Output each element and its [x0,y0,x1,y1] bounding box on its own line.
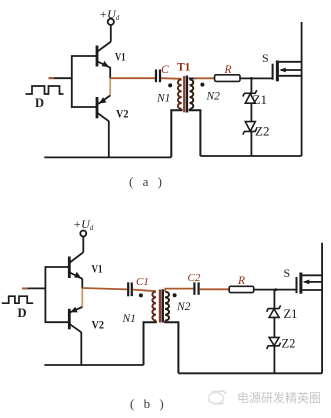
resistor R box [215,75,240,82]
MOSFET S (b) channel bar [299,273,302,294]
MOSFET S (a) channel bar [276,61,279,82]
junction node gate/zener (b) [274,288,277,291]
svg-text:S: S [262,51,269,65]
transformer core (b) [159,290,161,323]
svg-text:N2: N2 [206,91,221,103]
output emitter vertical wire [109,67,111,78]
primary bottom elbow wire (b) [144,321,156,365]
zener Z1 (b) [267,305,281,317]
wire Z2 to rail [250,131,252,156]
svg-text:R: R [224,64,232,76]
wire supply to V1 collector (b) [82,237,84,253]
wire secondary to R [190,78,196,79]
input wire (b) [22,287,45,289]
polarity dot primary [168,83,172,87]
capacitor C2 plates [194,282,198,294]
svg-text:( b ): ( b ) [130,396,167,411]
transistor V2 (b) [69,307,82,332]
MOSFET S (a) source stub [279,75,302,77]
transistor V1 (b) [69,252,83,278]
svg-text:N1: N1 [156,93,170,105]
base coupling rectangle wires (b) [45,267,69,322]
zener Z2 (b) [267,337,281,349]
wire node down to Z1 [250,78,252,93]
input wire [49,77,72,79]
svg-text:电源研发精英圈: 电源研发精英圈 [237,390,321,405]
wire C1 to transformer primary (b) [133,290,156,292]
drain/source rail (a) [301,22,303,156]
transformer secondary winding N2 [190,79,194,109]
svg-text:Z2: Z2 [282,337,296,351]
wire Z1 to Z2 [250,103,252,121]
supply terminal circle [108,19,114,25]
junction node gate/zener [250,77,253,80]
watermark logo [208,391,226,404]
wire output to capacitor C [110,77,155,79]
svg-text:Z1: Z1 [284,307,298,321]
V2 collector wire down (b) [80,332,82,365]
svg-text:Z2: Z2 [255,124,269,139]
svg-text:V2: V2 [116,107,129,121]
MOSFET S (b) drain stub [302,274,322,276]
square wave symbol (a) [26,86,64,94]
transistor V1 (NPN) [97,42,111,68]
transformer T1 primary winding N1 [178,79,182,109]
svg-text:R: R [237,275,245,287]
capacitor C plates [156,70,160,83]
left ground rail (a) [44,156,171,158]
svg-text:N2: N2 [176,301,191,313]
drain/source rail (b) [321,243,323,373]
capacitor C1 plates [128,282,132,296]
transformer primary winding N1 (b) [152,292,155,321]
zener Z1 [243,90,257,103]
output node tan wire down to V2 emitter [109,78,111,96]
wire node down to Z1 (b) [273,290,275,309]
svg-text:N1: N1 [122,313,136,325]
MOSFET S (a) body stub with arrow [281,69,302,71]
svg-text:C2: C2 [188,272,201,284]
transformer secondary winding N2 (b) [165,292,169,321]
wire C2 to R (b) [200,288,230,290]
supply terminal circle (b) [80,231,86,237]
MOSFET S (b) source stub [302,289,322,291]
transistor V2 (PNP) [97,96,110,122]
svg-text:V1: V1 [115,50,126,64]
secondary bottom elbow wire [190,109,201,156]
V2 collector wire down [108,121,110,157]
supply +Ud label [99,7,120,22]
svg-text:S: S [284,266,291,280]
svg-text:C1: C1 [136,276,149,288]
orange wire through resistor R [194,77,215,79]
svg-text:T1: T1 [177,62,191,74]
wire R to gate [240,77,273,79]
resistor R box (b) [229,286,254,292]
svg-text:D: D [35,96,44,110]
base coupling rectangle wires [72,56,97,107]
MOSFET S (b) body stub with arrow [305,281,323,283]
transformer core [183,76,185,112]
svg-text:V2: V2 [92,318,105,332]
input wire orange tick (b) [22,287,28,289]
zener Z2 [243,122,257,135]
square wave symbol (b) [2,296,33,303]
wire secondary to C2 (b) [165,289,193,292]
input wire orange tick [49,77,55,79]
primary bottom elbow wire [171,109,181,157]
MOSFET S (b) gate electrode [296,277,298,293]
secondary bottom elbow wire (b) [165,321,178,374]
wire capacitor to transformer primary [161,77,182,80]
wire output to capacitor C1 [82,288,127,289]
output node tan wire down to V2 emitter (b) [81,288,83,307]
svg-text:V1: V1 [92,262,103,276]
emitter vertical wire (b) [81,279,83,289]
secondary return rail (b) [178,372,322,374]
polarity dot primary (b) [139,293,143,297]
MOSFET S (a) gate electrode [272,64,274,80]
wire supply to V1 collector [110,25,112,42]
svg-text:( a ): ( a ) [129,174,165,189]
MOSFET S (a) drain stub [279,61,302,63]
wire R to gate (b) [254,289,297,291]
wire Z2 to rail (b) [273,346,275,374]
svg-text:D: D [18,306,27,320]
left ground rail (b) [44,364,143,366]
svg-text:Z1: Z1 [253,92,267,107]
secondary return rail (a) [200,155,301,157]
wire Z1 to Z2 (b) [273,317,275,337]
polarity dot secondary (b) [173,293,177,297]
polarity dot secondary [200,83,204,87]
svg-text:C: C [161,64,169,76]
supply +Ud label (b) [73,217,94,232]
